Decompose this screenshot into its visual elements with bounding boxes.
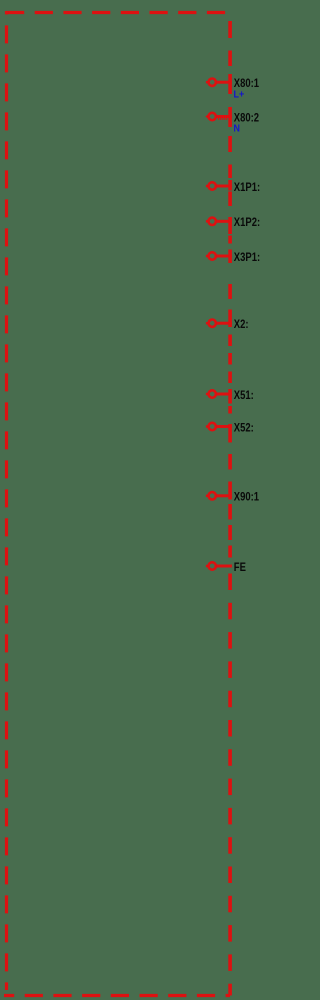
svg-text:X90:1: X90:1 (234, 491, 259, 504)
svg-text:X52:: X52: (234, 421, 254, 434)
svg-text:X1P2:: X1P2: (234, 216, 260, 229)
svg-text:FE: FE (234, 561, 246, 574)
svg-text:X3P1:: X3P1: (234, 251, 260, 264)
svg-text:N: N (234, 123, 240, 135)
svg-text:X51:: X51: (234, 389, 254, 402)
svg-text:X2:: X2: (234, 318, 249, 331)
svg-text:L+: L+ (234, 89, 245, 101)
svg-text:X1P1:: X1P1: (234, 181, 260, 194)
